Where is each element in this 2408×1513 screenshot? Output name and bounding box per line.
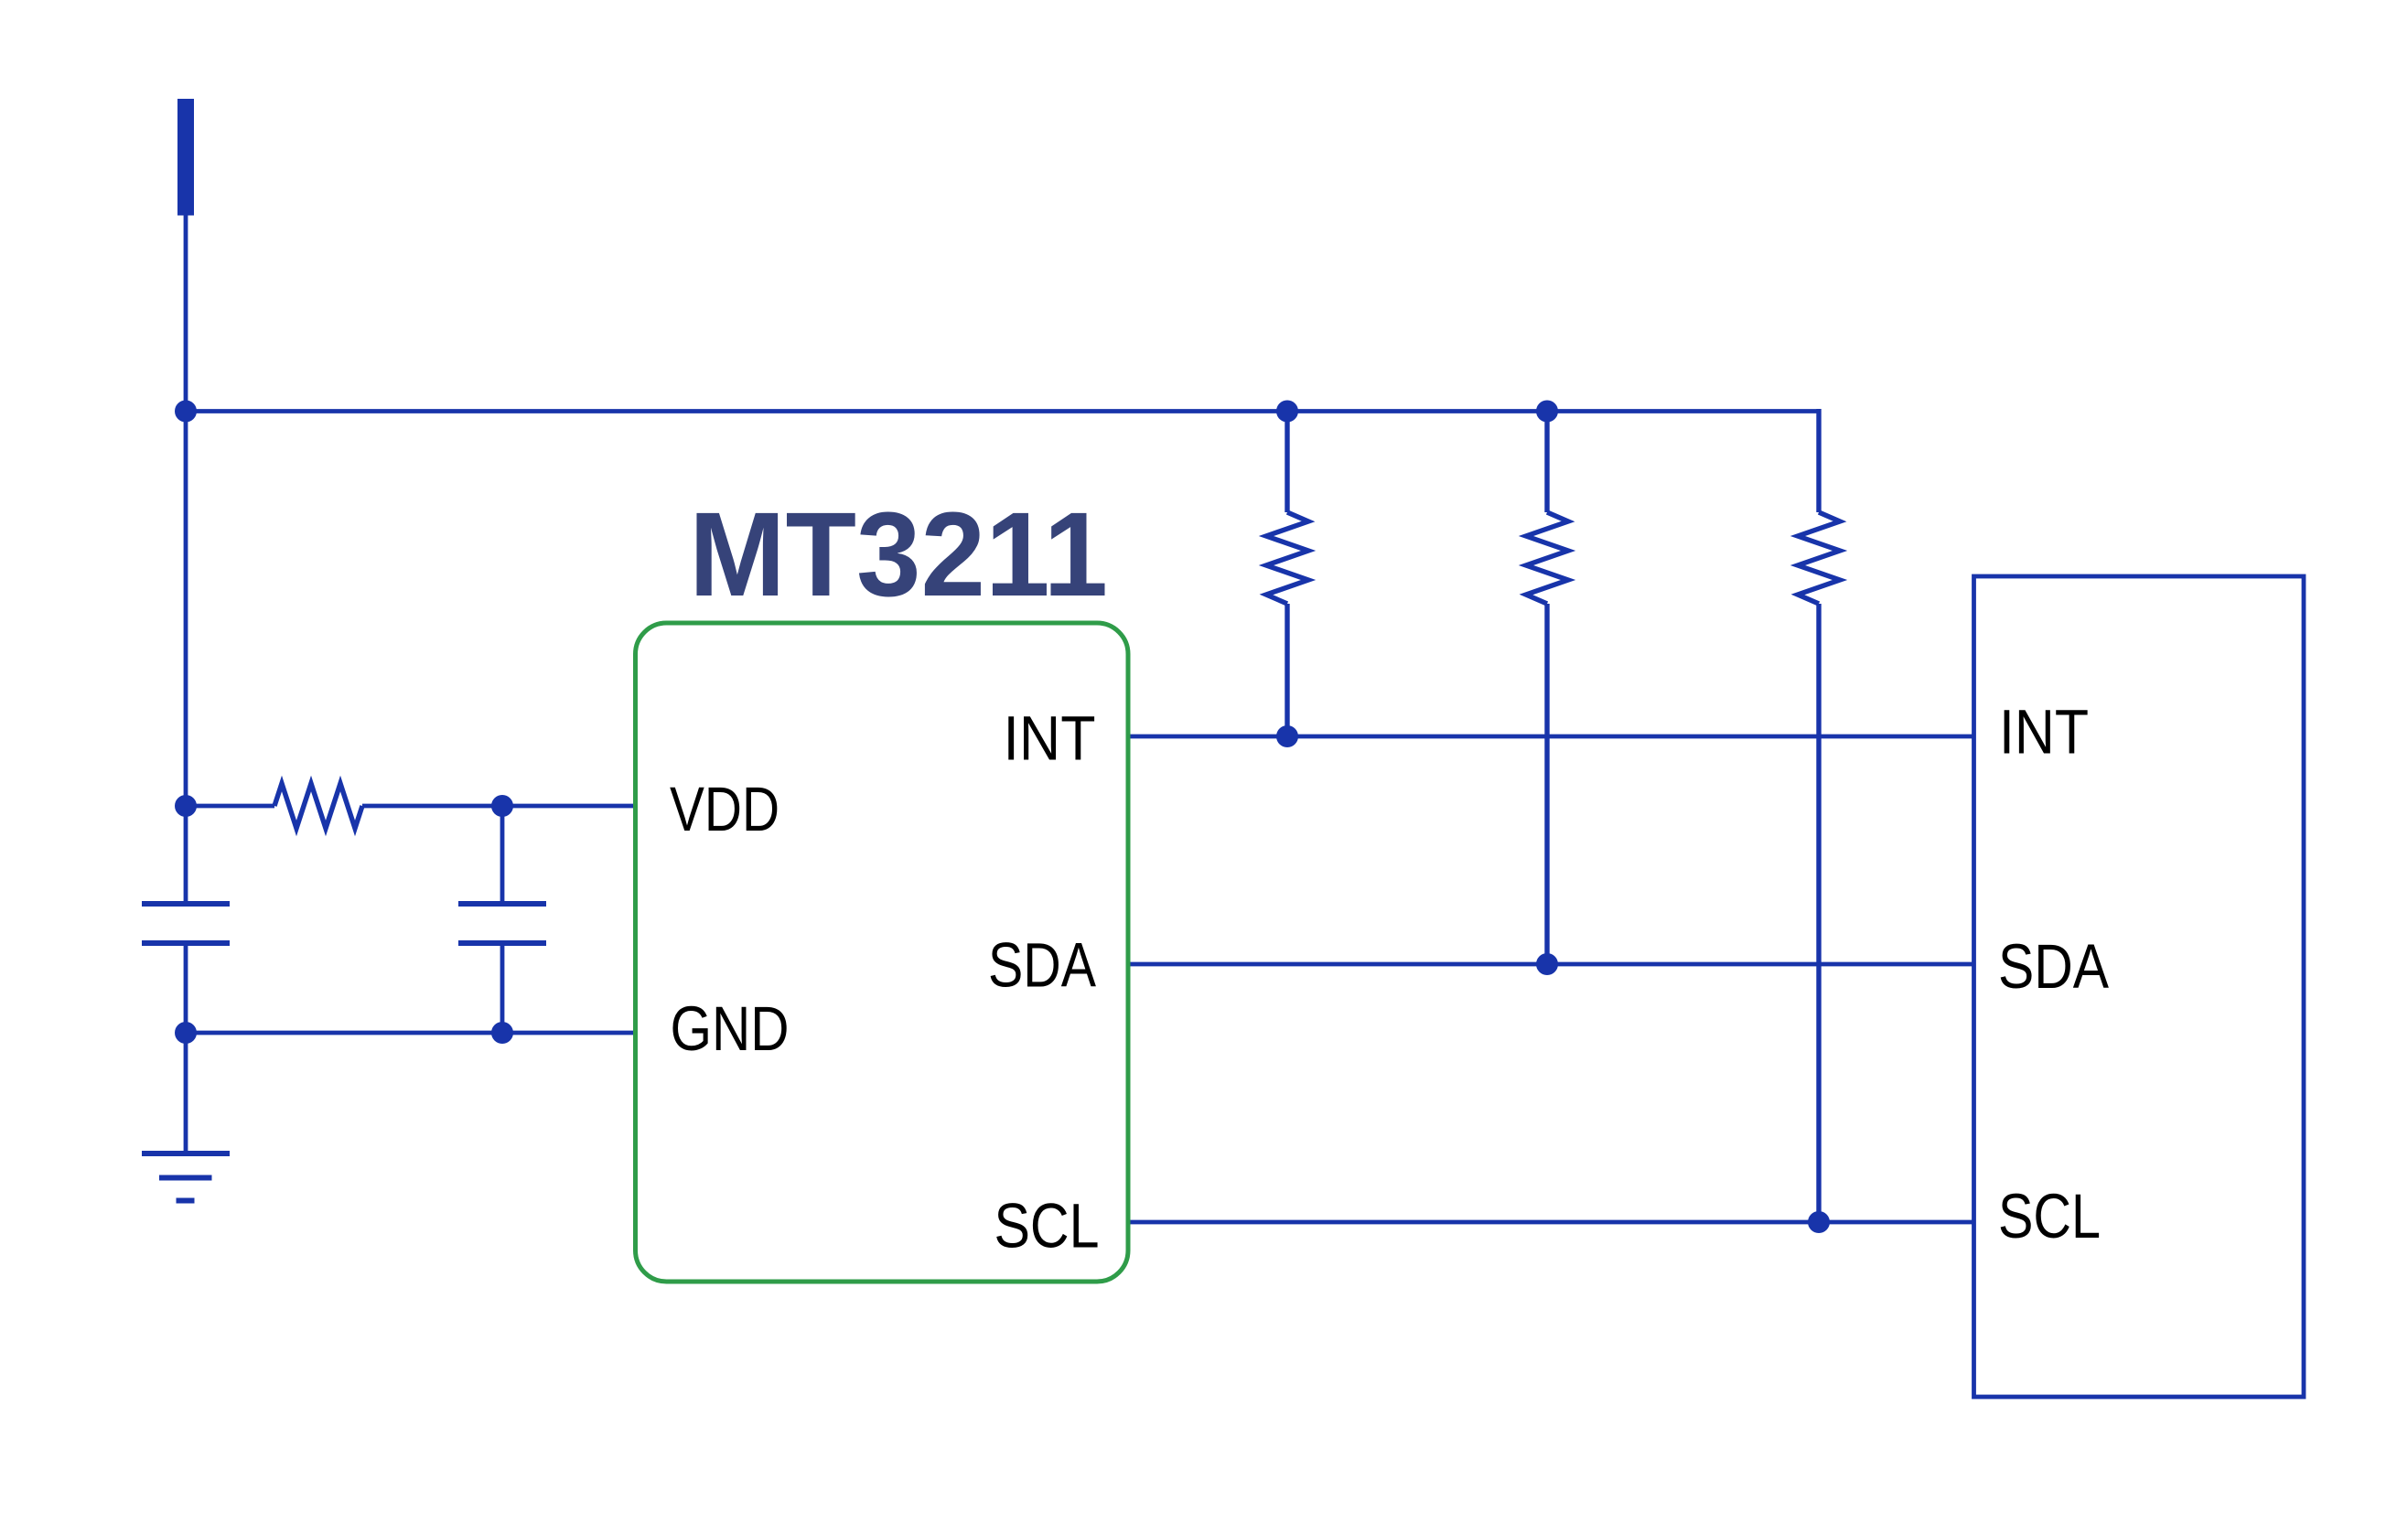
resistor R3 (SCL pull-up) (1798, 409, 1840, 1222)
resistor R2 (SDA pull-up) (1526, 412, 1568, 965)
node: rail-left junction (175, 401, 197, 423)
node: rail junction above R1 (1276, 401, 1298, 423)
svg-text:MT3211: MT3211 (689, 487, 1108, 621)
wire: VDD rail from left column to chip (186, 804, 274, 809)
svg-text:SDA: SDA (1998, 931, 2109, 1002)
battery / supply terminal bar (177, 99, 194, 216)
node: left rail at VDD (175, 795, 197, 817)
node: rail junction above R2 (1536, 401, 1558, 423)
svg-text:SDA: SDA (988, 930, 1096, 1001)
wire: GND rail to chip (186, 1031, 638, 1035)
svg-text:INT: INT (1004, 703, 1096, 774)
node: R3 to SCL line (1808, 1211, 1830, 1233)
resistor R1 (INT pull-up) (1266, 412, 1308, 738)
node: cap C2 top at VDD line (491, 795, 513, 817)
svg-text:INT: INT (1999, 697, 2089, 767)
node: R1 to INT line (1276, 725, 1298, 747)
wire: SCL net chip to MCU (1128, 1220, 1974, 1225)
wire: resistor to chip VDD pin (362, 804, 638, 809)
capacitor C1 (battery side) (142, 412, 230, 1034)
wire: SDA net chip to MCU (1128, 962, 1974, 967)
svg-text:SCL: SCL (1998, 1181, 2101, 1251)
svg-text:SCL: SCL (994, 1191, 1100, 1261)
svg-text:VDD: VDD (670, 774, 779, 844)
ground (142, 1033, 230, 1201)
wire: supply bar down to top rail (184, 215, 188, 415)
MCU box U2 (1974, 576, 2305, 1397)
node: R2 to SDA line (1536, 953, 1558, 975)
resistor R4 (VDD series) (274, 784, 362, 829)
op chip U1 MT3211 body (636, 623, 1129, 1282)
wire: INT net chip to MCU (1128, 735, 1974, 739)
node: cap C2 bottom at GND line (491, 1022, 513, 1044)
node: left rail at GND (175, 1022, 197, 1044)
svg-text:GND: GND (671, 993, 790, 1064)
wire: top rail (VDD bus) (186, 409, 1819, 413)
capacitor C2 (decoupling) (458, 806, 546, 1033)
